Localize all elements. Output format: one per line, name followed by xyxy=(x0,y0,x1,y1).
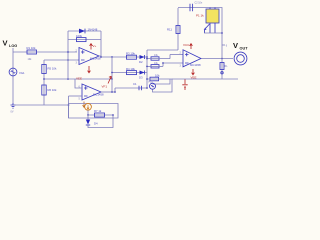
ground xyxy=(11,103,16,114)
svg-text:R3 10k: R3 10k xyxy=(126,51,135,55)
svg-text:VF1: VF1 xyxy=(102,85,108,89)
svg-text:VEE: VEE xyxy=(76,77,82,81)
svg-text:R6 10k: R6 10k xyxy=(48,88,57,92)
wire xyxy=(88,115,113,128)
power VCC op-amp U1 xyxy=(90,44,97,50)
svg-text:0V: 0V xyxy=(11,111,14,114)
capacitor C2 xyxy=(190,2,203,12)
resistor R8 xyxy=(151,54,159,60)
power VEE op-amp U1 xyxy=(76,66,90,81)
wire xyxy=(68,39,101,41)
wire xyxy=(170,54,183,56)
wire xyxy=(146,50,148,88)
svg-text:VEE: VEE xyxy=(191,76,197,80)
node B2 xyxy=(67,78,69,80)
node VOUT label xyxy=(233,41,248,51)
wire xyxy=(111,57,113,92)
svg-text:R4 10k: R4 10k xyxy=(126,67,135,71)
wire xyxy=(13,51,77,53)
node C xyxy=(67,51,69,53)
node G xyxy=(68,104,70,106)
svg-text:D4: D4 xyxy=(94,122,98,126)
node B xyxy=(67,59,69,61)
svg-text:VG1: VG1 xyxy=(19,71,25,75)
svg-text:1N4148: 1N4148 xyxy=(88,28,98,32)
wire xyxy=(12,48,14,52)
port VOUT xyxy=(234,52,247,65)
svg-text:R1 10k: R1 10k xyxy=(27,46,36,50)
svg-text:100k: 100k xyxy=(76,34,83,38)
capacitor C1 xyxy=(133,82,142,90)
op-amp U2 xyxy=(79,84,105,101)
svg-text:C1: C1 xyxy=(133,82,137,86)
wire xyxy=(169,55,171,59)
wire xyxy=(114,88,116,92)
svg-text:10k: 10k xyxy=(155,73,160,77)
power VCC op-amp U3 xyxy=(183,43,192,49)
wire xyxy=(12,52,14,103)
diode D2 xyxy=(139,55,145,64)
node F xyxy=(111,72,113,74)
svg-text:V: V xyxy=(233,41,238,50)
wire xyxy=(68,96,70,118)
wire xyxy=(147,58,170,60)
svg-text:LOG: LOG xyxy=(9,44,17,48)
node A xyxy=(43,78,45,80)
node O2 xyxy=(162,62,164,64)
wire xyxy=(100,31,102,57)
svg-text:C2 10n: C2 10n xyxy=(195,2,203,5)
node P xyxy=(146,78,148,80)
wire xyxy=(147,65,163,67)
node L xyxy=(112,114,114,116)
current source IS1 xyxy=(85,103,92,110)
svg-text:VCC+: VCC+ xyxy=(183,43,191,47)
wire xyxy=(87,115,89,120)
wire xyxy=(99,56,147,57)
op-amp U1 xyxy=(76,48,102,65)
wire xyxy=(204,32,222,34)
power VEE op-amp U2 xyxy=(83,102,86,108)
wire xyxy=(163,62,183,64)
node O xyxy=(146,66,148,68)
wire xyxy=(101,91,115,93)
svg-text:MC1458: MC1458 xyxy=(90,56,101,60)
resistor R7 xyxy=(94,109,105,117)
power VEE op-amp U3 xyxy=(191,69,197,80)
wire xyxy=(43,79,45,105)
wire xyxy=(67,31,69,79)
wire xyxy=(201,58,233,60)
wire xyxy=(153,79,171,84)
node M2 xyxy=(146,56,148,58)
op-amp U3 xyxy=(180,50,202,68)
node VLOG label xyxy=(3,39,18,49)
resistor R5 xyxy=(42,65,57,74)
pin 6 tick xyxy=(222,44,228,47)
node M xyxy=(146,58,148,60)
probe VF1 xyxy=(102,76,112,88)
resistor R10 xyxy=(150,73,160,80)
source VG2 xyxy=(148,81,156,90)
node S xyxy=(221,72,223,74)
svg-text:MC1458: MC1458 xyxy=(190,63,201,67)
svg-text:OUT: OUT xyxy=(240,47,249,51)
wire xyxy=(75,79,82,88)
wire xyxy=(44,78,112,80)
diode D1 xyxy=(79,28,98,34)
svg-text:VG2: VG2 xyxy=(148,81,153,84)
resistor R2 xyxy=(76,34,86,42)
source VG1 xyxy=(9,68,25,76)
wire xyxy=(112,72,147,74)
wire xyxy=(172,78,238,80)
wire xyxy=(69,95,83,97)
node R xyxy=(221,32,223,34)
node K xyxy=(87,114,89,116)
wire xyxy=(13,104,69,106)
resistor R9 xyxy=(151,62,159,68)
wire xyxy=(68,30,101,32)
wire xyxy=(88,114,113,116)
resistor R4 xyxy=(126,67,137,75)
node Q xyxy=(221,58,223,60)
node D xyxy=(100,56,102,58)
wire xyxy=(43,60,45,79)
resistor R1 xyxy=(27,46,37,61)
node I xyxy=(114,91,116,93)
wire xyxy=(221,59,223,80)
svg-text:R7 1k: R7 1k xyxy=(94,109,102,113)
diode D3 xyxy=(139,71,145,80)
node B3 xyxy=(111,78,113,80)
diode D4 xyxy=(86,120,98,126)
node H xyxy=(111,91,113,93)
svg-text:V+: V+ xyxy=(93,44,97,48)
svg-text:R11: R11 xyxy=(167,28,172,32)
wire xyxy=(87,110,89,115)
node J xyxy=(146,87,148,89)
svg-text:R5 10k: R5 10k xyxy=(48,67,57,71)
resistor RL xyxy=(220,63,228,70)
wire xyxy=(177,8,179,50)
resistor R11 xyxy=(167,26,180,34)
svg-text:P1 1k: P1 1k xyxy=(196,14,204,18)
potentiometer P1 xyxy=(196,8,219,34)
wire bottom loop xyxy=(69,104,119,119)
wire xyxy=(162,63,164,66)
wire xyxy=(44,59,79,61)
wire xyxy=(115,87,147,89)
node E xyxy=(111,56,113,58)
svg-text:D2: D2 xyxy=(139,60,143,64)
wire xyxy=(178,8,222,59)
battery B1 xyxy=(182,79,187,90)
svg-text:V: V xyxy=(3,39,8,48)
svg-text:MC1458: MC1458 xyxy=(93,93,104,97)
svg-text:D3: D3 xyxy=(139,76,143,80)
wire xyxy=(147,49,178,51)
resistor R6 xyxy=(42,85,57,95)
resistor R3 xyxy=(126,51,137,59)
wire xyxy=(147,79,172,92)
